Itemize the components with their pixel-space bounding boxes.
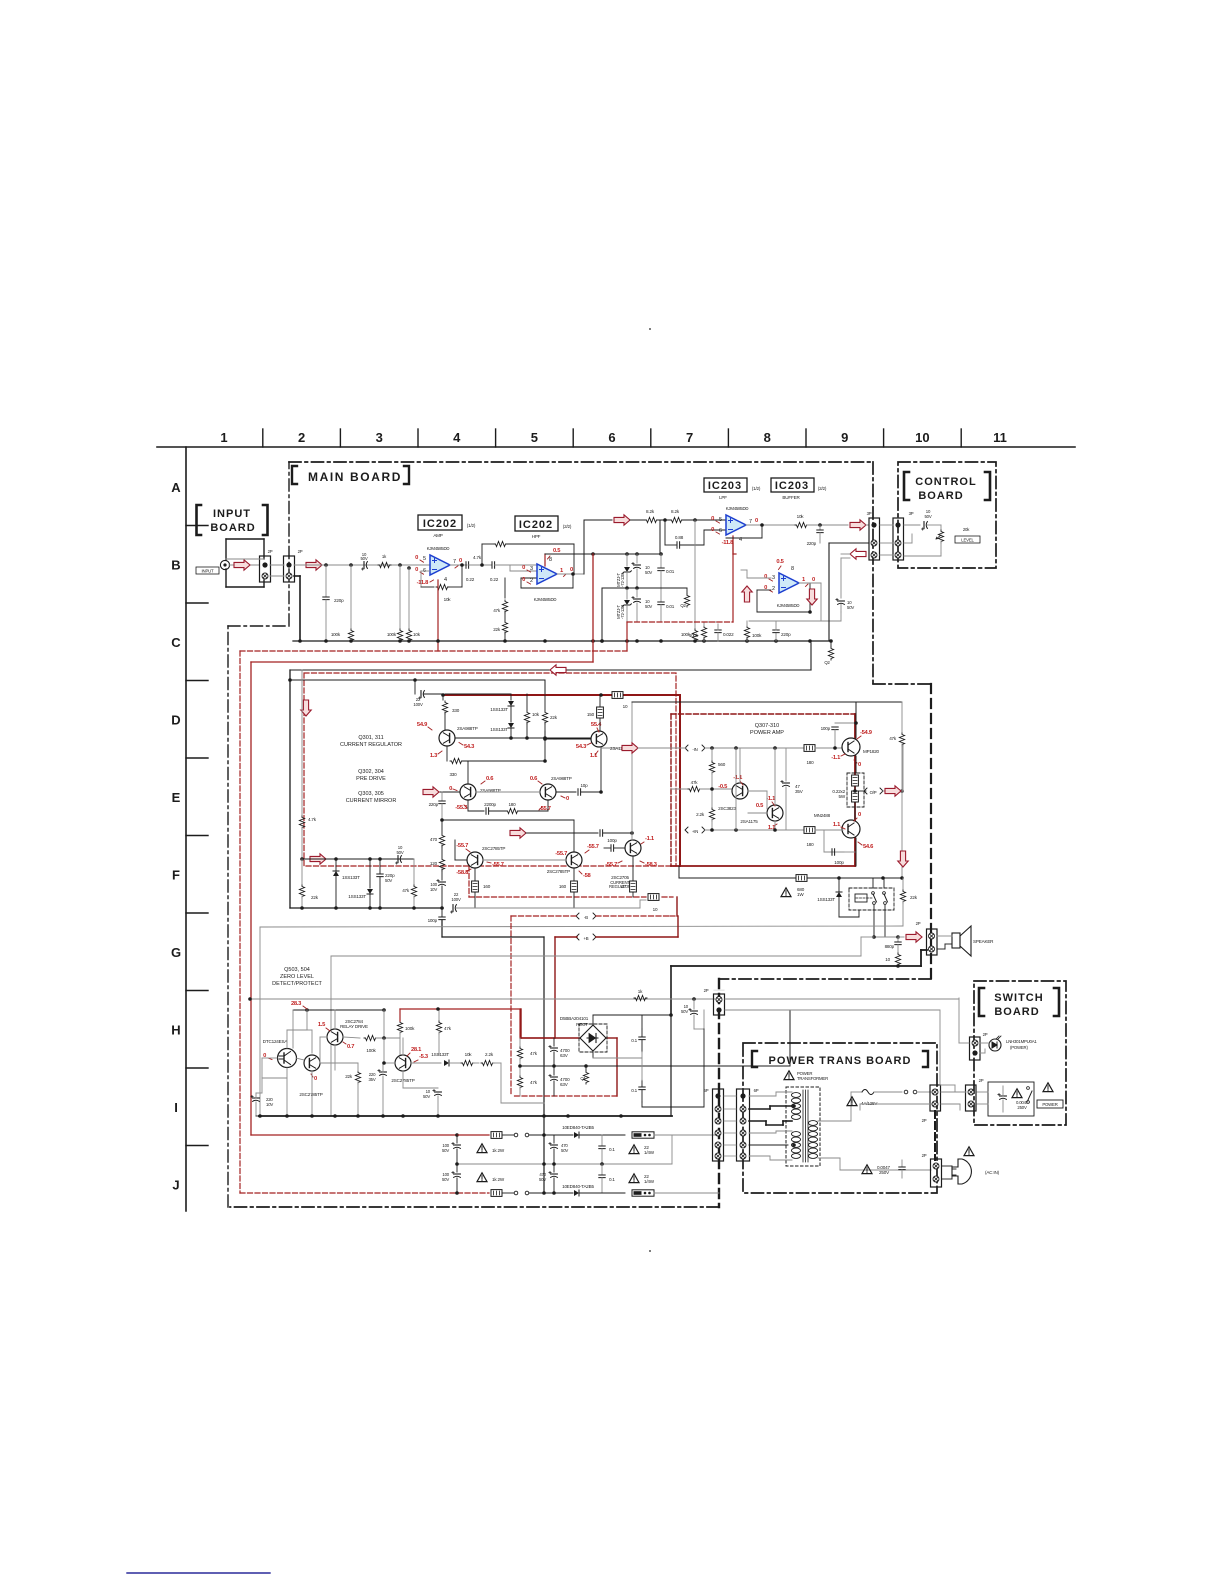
svg-text:KJM4585DD: KJM4585DD [726, 506, 749, 511]
svg-text:100p: 100p [821, 726, 831, 731]
svg-text:0.1: 0.1 [609, 1147, 615, 1152]
wire connector link [270, 564, 284, 566]
node -B [576, 913, 596, 919]
svg-text:100k: 100k [331, 632, 341, 637]
wire U1 inverting feedback [421, 570, 430, 572]
wire B-row main [294, 564, 430, 566]
svg-text:(AC IN): (AC IN) [985, 1170, 1000, 1175]
warning AC [964, 1147, 974, 1156]
wire to 8.2k [630, 519, 645, 521]
svg-text:-1.1: -1.1 [831, 755, 841, 761]
warning 1k 2W a [477, 1144, 487, 1153]
zener D202 MTZJ-T lower [625, 586, 629, 590]
detect top rail [293, 1009, 385, 1011]
IC203 1/2 label [704, 478, 747, 492]
red dashed notch [468, 866, 470, 897]
INPUT jack label [196, 567, 219, 574]
INPUT BOARD title [197, 505, 202, 535]
resistor 560 [711, 748, 713, 760]
INPUT BOARD outline [226, 538, 264, 540]
svg-text:28.3: 28.3 [291, 1001, 302, 1007]
wire mid node [383, 1038, 385, 1063]
svg-text:Q302, 304: Q302, 304 [358, 769, 384, 775]
wire bases vertical pair [735, 748, 737, 830]
IC202 1/2 label [418, 515, 462, 530]
wire Q311 base [545, 738, 591, 740]
resistor 47k H [438, 1009, 440, 1020]
SWITCH BOARD title [979, 988, 984, 1016]
svg-text:0: 0 [755, 518, 758, 524]
svg-text:160: 160 [559, 884, 567, 889]
svg-text:-54.9: -54.9 [860, 730, 873, 736]
connector CN main board 2P [284, 556, 295, 582]
red sense wires detect [399, 1009, 401, 1021]
resistor 47k F [401, 858, 414, 860]
arrow F left [310, 854, 326, 864]
svg-text:50V: 50V [645, 604, 652, 609]
wire Q307-Q308 [748, 790, 767, 792]
svg-text:2SC3823: 2SC3823 [718, 806, 736, 811]
svg-text:11: 11 [993, 430, 1007, 445]
svg-text:E: E [172, 790, 181, 805]
diode 1SS133T relay [838, 878, 840, 891]
capacitor coupling F [526, 832, 598, 834]
warning switch [1043, 1083, 1053, 1092]
resistor 10k divider [407, 566, 411, 570]
svg-text:50V: 50V [924, 514, 931, 519]
capacitor 220/10V [261, 1078, 263, 1093]
CONTROL BOARD outline [898, 462, 996, 568]
diode 10ED840-TA2B5 b [574, 1190, 579, 1196]
resistor 47k psu a [519, 1038, 521, 1046]
input jack [220, 560, 229, 569]
red dashed y622 [627, 621, 733, 623]
transistor Q303 2SC2785TP [467, 852, 483, 868]
resistor 2.2k [711, 789, 713, 807]
wire Q303 base [455, 859, 467, 861]
svg-text:0: 0 [566, 796, 569, 802]
wire Q308 emitter [774, 748, 776, 805]
svg-text:(1/2): (1/2) [752, 486, 761, 491]
capacitor 47/35V [785, 748, 787, 781]
svg-text:2: 2 [530, 578, 533, 584]
capacitor 4700/63V a [553, 1038, 555, 1046]
power rail down x680 [679, 695, 681, 866]
svg-text:0: 0 [459, 558, 462, 564]
wire F-row bias [302, 858, 414, 860]
connector 2P LED [970, 1037, 981, 1060]
svg-text:(2/2): (2/2) [563, 524, 572, 529]
svg-text:220p: 220p [781, 632, 791, 637]
capacitor 100p Q309 [835, 722, 856, 724]
resistor 100k input a [349, 563, 353, 567]
transformer warning [784, 1071, 794, 1080]
detect block verticals [383, 1010, 385, 1038]
svg-text:DETECT/PROTECT: DETECT/PROTECT [272, 981, 322, 987]
svg-text:2.2k: 2.2k [696, 812, 705, 817]
node -IN [685, 745, 705, 751]
svg-text:220p: 220p [807, 541, 817, 546]
svg-text:0: 0 [415, 555, 418, 561]
wire Q303-Q305 link [483, 859, 566, 861]
op-amp U2 IC202 2/2 [537, 564, 557, 584]
svg-text:6: 6 [608, 430, 615, 445]
svg-text:KJM4585DD: KJM4585DD [427, 546, 450, 551]
svg-text:20k: 20k [963, 527, 970, 532]
svg-text:2: 2 [298, 430, 305, 445]
svg-text:560: 560 [718, 762, 726, 767]
arrow up buffer [742, 586, 752, 602]
svg-text:10ED840-TA2B5: 10ED840-TA2B5 [562, 1125, 594, 1130]
resistor 2.2k H [473, 1062, 479, 1064]
svg-text:1.5: 1.5 [318, 1022, 326, 1028]
svg-text:63V: 63V [560, 1053, 569, 1058]
red dashed left vertical x240 [239, 651, 241, 1193]
svg-text:Q2: Q2 [680, 603, 686, 608]
svg-text:F: F [172, 868, 180, 883]
transistor Q309 MP1820 [842, 738, 860, 756]
svg-text:2SC2785TP: 2SC2785TP [299, 1092, 322, 1097]
fuse F901 [862, 1090, 874, 1095]
POWER label [1037, 1100, 1063, 1108]
wire Q503 emitter [334, 1045, 336, 1063]
transistor Q311 2SA1145 [591, 731, 607, 747]
svg-text:470: 470 [430, 837, 438, 842]
svg-text:1k: 1k [638, 989, 643, 994]
boxed resistor 47 [632, 856, 634, 880]
svg-text:3: 3 [772, 575, 775, 581]
resistor 470 [441, 820, 443, 833]
wire Q304 collector right [556, 791, 576, 793]
arrow down right [898, 851, 908, 867]
svg-text:+IN: +IN [692, 829, 698, 834]
svg-text:0.6: 0.6 [530, 776, 538, 782]
svg-text:10V: 10V [266, 1102, 273, 1107]
capacitor 220p input [324, 563, 328, 567]
resistor 47k right [901, 702, 903, 732]
svg-text:50V: 50V [847, 605, 854, 610]
svg-text:MP1820: MP1820 [863, 749, 880, 754]
power switch block [988, 1082, 1034, 1116]
svg-text:7: 7 [453, 559, 456, 565]
red wire U3 pin4 [732, 536, 734, 622]
resistor 8.2k b [657, 519, 670, 521]
connector 3P control [893, 518, 904, 560]
svg-text:100k: 100k [366, 1048, 376, 1053]
svg-text:-1.1: -1.1 [645, 836, 655, 842]
svg-text:H: H [171, 1023, 180, 1038]
SWITCH BOARD outline [974, 981, 1066, 1125]
svg-text:REGULTOR: REGULTOR [609, 884, 631, 889]
svg-text:100k: 100k [405, 1026, 415, 1031]
svg-text:10: 10 [915, 430, 929, 445]
svg-text:1.1: 1.1 [833, 822, 841, 828]
capacitor 220/35V detect [378, 1069, 387, 1075]
wire Q503 base [320, 1036, 327, 1038]
svg-text:1W: 1W [797, 892, 804, 897]
C-row ground bus [293, 640, 831, 642]
wire inter cap [469, 564, 492, 566]
svg-text:2SC2785TP: 2SC2785TP [482, 846, 505, 851]
capacitor 0.88 branch [664, 520, 666, 545]
capacitor 220p buffer [775, 633, 777, 641]
svg-text:0: 0 [711, 527, 714, 533]
capacitor 220p out [819, 525, 821, 530]
svg-text:35V: 35V [795, 789, 804, 794]
svg-text:1/4W: 1/4W [644, 1179, 655, 1184]
svg-text:22k: 22k [493, 627, 501, 632]
svg-text:10k: 10k [413, 632, 421, 637]
svg-text:47k: 47k [493, 608, 501, 613]
svg-text:LEVEL: LEVEL [961, 538, 974, 543]
page speck bottom [649, 1250, 651, 1252]
svg-text:IC203: IC203 [708, 480, 742, 492]
svg-text:6: 6 [719, 528, 722, 534]
svg-text:POWER: POWER [1042, 1102, 1057, 1107]
svg-text:IC202: IC202 [423, 518, 457, 530]
wire D-row lower [455, 737, 511, 739]
wire black mid to connector [829, 542, 869, 544]
diode 10ED840-TA2B5 a [553, 1134, 573, 1136]
capacitor 470/50V b [553, 1164, 555, 1172]
fusible resistor 10 y897 [648, 894, 659, 901]
transistor Q501 DTC124ESA [278, 1049, 297, 1068]
capacitor 0.1 Jb [601, 1164, 603, 1174]
connector 6P pair [713, 1089, 724, 1161]
capacitor 0.1 psu a [641, 1029, 643, 1036]
svg-text:100V: 100V [451, 897, 461, 902]
svg-text:28.1: 28.1 [411, 1047, 422, 1053]
capacitor 0.01 upper [659, 552, 663, 556]
capacitor 4700/63V b [553, 1066, 555, 1075]
wire G gray left vertical [259, 927, 261, 1116]
red wire U1 pin4 [437, 580, 439, 651]
wire Q503 collector [334, 1010, 336, 1029]
svg-text:-B: -B [584, 915, 588, 920]
arrow left D-row [550, 665, 566, 675]
svg-text:0.01: 0.01 [666, 604, 675, 609]
svg-text:1k: 1k [382, 554, 387, 559]
wire D-row top [290, 669, 811, 671]
maroon +B rail [555, 936, 577, 938]
capacitor 100p Q310 [824, 851, 844, 853]
fusible resistor red rail [612, 692, 623, 699]
ruler top ticks [262, 429, 264, 447]
svg-text:50V: 50V [442, 1177, 449, 1182]
svg-text:2SA988TP: 2SA988TP [457, 726, 478, 731]
svg-text:-11.8: -11.8 [417, 580, 429, 586]
svg-text:IC203: IC203 [775, 480, 809, 492]
capacitor 10/50V series [362, 562, 368, 571]
svg-text:LPF: LPF [719, 495, 727, 500]
node +B [576, 934, 596, 940]
svg-text:10ED840-TA2B5: 10ED840-TA2B5 [562, 1184, 594, 1189]
svg-text:PRE DRIVE: PRE DRIVE [356, 776, 386, 782]
speaker [952, 933, 960, 948]
heavy link down [934, 1111, 936, 1160]
svg-text:22k: 22k [550, 715, 558, 720]
svg-text:-5.3: -5.3 [419, 1054, 429, 1060]
warning 1k 2W b [477, 1173, 487, 1182]
arrow HPF out [614, 515, 630, 525]
capacitor 220p E-row [441, 792, 443, 800]
svg-text:0: 0 [449, 786, 452, 792]
wires 6P link [724, 1095, 736, 1097]
red vert x627 [626, 622, 628, 651]
svg-text:-IN: -IN [692, 747, 697, 752]
resistor 10k H [449, 1062, 460, 1064]
capacitor 100/10V [437, 879, 446, 885]
svg-text:54.3: 54.3 [464, 744, 475, 750]
resistor 8.2k a [645, 517, 658, 522]
page border ruler top [157, 446, 1075, 448]
wires 3P link [880, 524, 893, 526]
arrow down left edge [301, 700, 311, 716]
svg-text:6P: 6P [704, 1088, 709, 1093]
wire sec2 [860, 1103, 931, 1105]
svg-text:Q2: Q2 [824, 660, 830, 665]
svg-text:SPEAKER: SPEAKER [973, 939, 994, 944]
svg-text:-55.7: -55.7 [456, 843, 468, 849]
svg-text:-72-12B: -72-12B [620, 573, 625, 587]
resistor 10k out [795, 522, 808, 527]
psu mid rail [520, 1065, 617, 1067]
svg-text:0.01: 0.01 [666, 569, 675, 574]
capacitor 10p [578, 789, 581, 795]
POWER TRANS BOARD title [752, 1051, 757, 1067]
wire Q504 [384, 1062, 395, 1064]
svg-text:5: 5 [531, 430, 538, 445]
svg-text:0.88: 0.88 [675, 535, 684, 540]
resistor 47k drive [671, 788, 688, 790]
svg-text:50V: 50V [561, 1148, 568, 1153]
svg-text:J: J [172, 1178, 179, 1193]
svg-text:RECT: RECT [576, 1022, 588, 1027]
svg-text:MN2488: MN2488 [814, 813, 831, 818]
svg-text:BOARD: BOARD [210, 522, 255, 534]
svg-text:0.022: 0.022 [723, 632, 734, 637]
svg-text:7: 7 [749, 519, 752, 525]
wire Q307 collector up [739, 748, 741, 783]
connector speaker 2P [927, 929, 938, 955]
capacitor 0.22 b [492, 562, 495, 568]
resistor 22k detect [334, 1063, 336, 1070]
svg-text:-72-12B: -72-12B [620, 605, 625, 619]
maroon +B down [554, 937, 556, 1038]
svg-text:0: 0 [314, 1076, 317, 1082]
svg-text:0.1: 0.1 [631, 1088, 637, 1093]
arrow after connector [306, 560, 322, 570]
transistor Q308 2SA1175 [767, 805, 783, 821]
svg-text:5: 5 [423, 556, 426, 562]
svg-text:BOARD: BOARD [994, 1006, 1039, 1018]
warning 0.0047 250V trans [862, 1165, 872, 1174]
svg-text:7: 7 [686, 430, 693, 445]
svg-text:22k: 22k [345, 1074, 353, 1079]
svg-text:0.22: 0.22 [490, 577, 499, 582]
transformer primary wires [749, 1095, 776, 1097]
boxed resistor 180 top [804, 745, 815, 752]
svg-text:9: 9 [841, 430, 848, 445]
op-amp U4 IC203 2/2 buffer [779, 573, 799, 593]
wire Q302 collector [467, 761, 469, 784]
svg-text:47k: 47k [530, 1080, 538, 1085]
svg-text:0.5: 0.5 [776, 559, 784, 565]
svg-text:100V: 100V [413, 702, 423, 707]
resistor 10k D-row [526, 694, 528, 710]
left block vertical [289, 670, 291, 908]
svg-text:1: 1 [802, 577, 806, 583]
red dashed -B rail [511, 915, 577, 917]
svg-text:100p: 100p [834, 860, 844, 865]
svg-text:G: G [171, 945, 181, 960]
red dashed y651 [240, 650, 627, 652]
wire sub top [288, 678, 292, 682]
capacitor 470/50V a [553, 1135, 555, 1143]
svg-text:0: 0 [764, 574, 767, 580]
warning 680 1W [781, 888, 791, 897]
svg-text:8: 8 [791, 566, 794, 572]
wire U4 inputs [747, 577, 771, 579]
resistor 47k psu b [519, 1066, 521, 1075]
svg-text:0: 0 [570, 567, 573, 573]
svg-text:50V: 50V [539, 1177, 546, 1182]
svg-text:3: 3 [530, 566, 533, 572]
svg-text:0: 0 [858, 762, 861, 768]
connector 2P trans top [714, 989, 725, 991]
wire U4 out down [799, 582, 821, 584]
CONTROL BOARD title [904, 472, 909, 500]
svg-text:2P: 2P [979, 1078, 984, 1083]
svg-text:4: 4 [453, 430, 461, 445]
red wire U2 pin8 [544, 554, 546, 566]
POWER TRANS BOARD outline [743, 1043, 937, 1193]
connector 2P G-row [714, 994, 725, 1015]
svg-text:50V: 50V [396, 850, 403, 855]
control board cap 10/50V [904, 524, 920, 526]
svg-text:220p: 220p [334, 598, 344, 603]
wire relay contacts down [873, 905, 875, 937]
svg-text:C: C [171, 635, 181, 650]
svg-text:10V: 10V [430, 887, 437, 892]
wire G-row long gray [260, 926, 903, 927]
wire Q502 down [311, 1071, 313, 1116]
op-amp U3 IC203 1/2 [726, 515, 746, 535]
svg-text:1: 1 [560, 568, 564, 574]
svg-text:5W: 5W [839, 794, 846, 799]
power rail red heavy [443, 694, 680, 696]
wire G gray y998 [250, 998, 715, 1000]
ruler left ticks [186, 525, 208, 527]
svg-text:Q1: Q1 [580, 1076, 586, 1081]
transistor Q304 2SA988TP [540, 784, 556, 800]
page speck top [649, 328, 651, 330]
svg-text:22k: 22k [910, 895, 918, 900]
resistor 22k D-row [544, 695, 546, 710]
boxed resistor 150 [599, 693, 603, 697]
svg-text:120: 120 [430, 861, 438, 866]
rectifier red box [520, 1009, 522, 1038]
capacitor 22/100V [414, 680, 416, 694]
resistor 330 horizontal [450, 758, 463, 763]
svg-text:54.6: 54.6 [863, 844, 874, 850]
svg-text:-55.7: -55.7 [605, 862, 617, 868]
connector 3P main [869, 518, 880, 560]
svg-text:10: 10 [623, 704, 628, 709]
svg-text:1.3: 1.3 [430, 753, 438, 759]
svg-text:2P: 2P [922, 1153, 927, 1158]
AC plug [952, 1159, 971, 1184]
